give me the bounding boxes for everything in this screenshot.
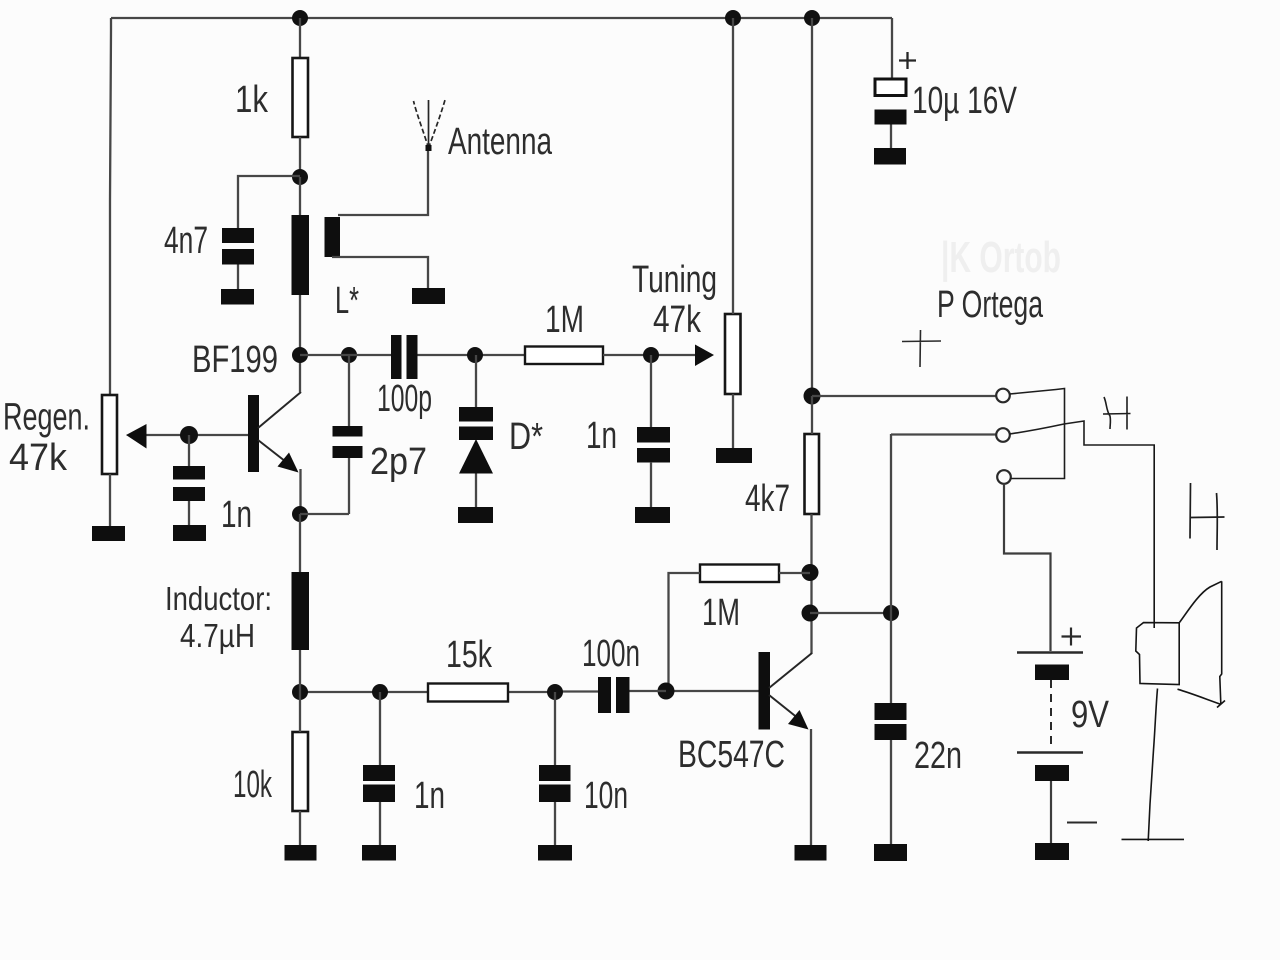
wire 1n low pass to ground — [379, 802, 381, 845]
wire 1M left lead down to base node — [669, 573, 701, 691]
wire 4k7 bottom to collector — [810, 514, 812, 654]
node junction base / 1n — [180, 426, 198, 444]
wire right rail corner down to 10u cap — [891, 18, 893, 79]
battery BT1 9V — [1017, 628, 1097, 844]
wire BF199 collector up — [299, 355, 301, 392]
resistor R3 1M — [525, 347, 603, 365]
resistor R6 1M feedback — [700, 565, 779, 583]
svg-text:P Ortega: P Ortega — [937, 284, 1044, 326]
wire 4k7 rail down — [811, 18, 813, 396]
wire 1n to ground — [188, 501, 190, 525]
resistor R5 4k7 — [805, 434, 820, 514]
svg-text:22n: 22n — [914, 735, 962, 777]
wire 100n right lead — [630, 690, 667, 692]
svg-text:|K Ortob: |K Ortob — [941, 233, 1061, 283]
svg-text:1n: 1n — [414, 775, 445, 817]
svg-text:10µ 16V: 10µ 16V — [912, 80, 1017, 122]
wire 4.7uH bottom lead — [299, 650, 301, 692]
node junction 4k7 rail — [804, 10, 820, 26]
svg-text:1n: 1n — [221, 494, 252, 536]
capacitor C7 100n — [598, 677, 630, 713]
ground Regen pot — [92, 526, 125, 541]
svg-text:1n: 1n — [586, 415, 617, 457]
hand-drawn H mark lower — [1190, 483, 1225, 550]
wire collector node to 100p — [300, 354, 391, 356]
svg-text:1k: 1k — [235, 79, 269, 121]
svg-text:4.7µH: 4.7µH — [180, 617, 255, 654]
wire 2p7 bottom lead — [348, 458, 350, 514]
inductor L2 4.7uH — [292, 572, 310, 650]
svg-text:10k: 10k — [233, 764, 273, 806]
svg-text:2p7: 2p7 — [370, 441, 427, 483]
transistor Q1 BF199 — [192, 339, 301, 473]
svg-text:15k: 15k — [446, 634, 493, 676]
transistor Q2 BC547C — [678, 652, 812, 776]
svg-text:BC547C: BC547C — [678, 734, 785, 776]
speaker LS1 — [1122, 445, 1226, 841]
ground diode — [458, 507, 493, 523]
node junction base divider — [292, 169, 308, 185]
capacitor C2 1n base — [173, 466, 205, 501]
svg-text:10n: 10n — [584, 775, 628, 817]
wire BC547 base — [666, 690, 759, 692]
wire 1n low pass top lead — [379, 692, 381, 765]
wire 10n top lead — [554, 692, 556, 765]
node 22n junction — [883, 605, 899, 621]
wire node to connector pin 1 — [812, 395, 997, 397]
node inductor bottom — [292, 684, 308, 700]
node collector junction — [292, 347, 308, 363]
wire 1n tuning top lead — [650, 355, 652, 427]
node collector output junction — [802, 605, 819, 622]
wire 1k top lead — [299, 18, 301, 58]
diode D1 varicap — [459, 355, 493, 507]
ground antenna coil — [412, 288, 445, 304]
wire output node to connector pin 2 — [891, 433, 997, 435]
resistor R8 15k — [428, 684, 508, 702]
wire top supply rail — [111, 17, 892, 19]
wire 4n7 to ground — [237, 265, 239, 290]
wire tuning pot to ground — [732, 394, 734, 448]
svg-text:BF199: BF199 — [192, 339, 278, 381]
wire 22n to ground — [890, 740, 892, 844]
capacitor 4n7 — [222, 228, 254, 265]
wire 1M to tuning node — [603, 354, 696, 356]
wire Regen pot to ground — [109, 474, 111, 526]
resistor R7 10k — [293, 732, 309, 811]
wire coupling top to antenna — [338, 148, 428, 215]
wire L1 top lead — [299, 177, 301, 215]
wire 1n base cap lead — [188, 435, 190, 466]
node emitter junction — [292, 506, 308, 522]
hand-drawn H mark upper — [1103, 397, 1131, 430]
svg-text:Regen.: Regen. — [3, 397, 90, 439]
inductor L1 main winding — [292, 215, 310, 295]
svg-text:100p: 100p — [377, 378, 432, 420]
wire tuning pot top from rail — [732, 18, 734, 314]
inductor L1 antenna coupling winding — [325, 217, 341, 257]
node diode junction — [467, 347, 483, 363]
wire 10k to ground — [299, 811, 301, 845]
wire pin 2 to speaker — [1010, 421, 1156, 445]
capacitor C8 1n low pass — [363, 765, 395, 802]
node base junction — [658, 683, 675, 700]
wire 100p to diode node — [418, 354, 526, 356]
node junction tuning rail — [725, 10, 741, 26]
hand-drawn plus mark — [902, 330, 941, 367]
node 1n bottom junction — [372, 684, 388, 700]
svg-text:Inductor:: Inductor: — [165, 580, 272, 617]
ground 10u cap — [874, 148, 906, 165]
svg-text:47k: 47k — [653, 299, 702, 341]
svg-text:1M: 1M — [545, 299, 584, 341]
svg-text:Tuning: Tuning — [632, 259, 717, 301]
antenna symbol — [414, 100, 446, 148]
capacitor C4 2p7 — [333, 426, 363, 458]
wire collector node to 22n branch — [810, 612, 891, 614]
resistor 1k — [293, 58, 309, 137]
capacitor C3 100p — [391, 335, 418, 379]
wire L1 bottom lead — [299, 295, 301, 355]
wire 10n to ground — [554, 802, 556, 845]
svg-text:Antenna: Antenna — [448, 121, 553, 163]
ground 10k — [285, 845, 317, 861]
wire 2p7 top lead — [348, 355, 350, 426]
wire 1k bottom lead — [299, 137, 301, 177]
svg-text:4n7: 4n7 — [164, 220, 208, 262]
wire 1n tuning to ground — [650, 462, 652, 507]
ground 22n — [874, 844, 907, 861]
wire connector bracket pin1 to pin3 — [1010, 389, 1065, 479]
wire left rail down to Regen pot — [110, 18, 111, 395]
connector pin 3 — [997, 470, 1011, 484]
node junction output to connector — [804, 388, 821, 405]
capacitor C6 10u 16V electrolytic — [875, 52, 917, 148]
svg-text:100n: 100n — [582, 633, 640, 675]
wire BF199 emitter down — [299, 469, 301, 514]
ground 4n7 — [221, 289, 254, 305]
wire BC547 emitter down — [810, 729, 812, 845]
potentiometer wiper arrow Regen — [126, 424, 147, 449]
svg-text:9V: 9V — [1071, 694, 1110, 736]
wire 4k7 top lead — [811, 396, 813, 434]
wire pin 3 to battery — [1004, 484, 1051, 652]
svg-text:D*: D* — [509, 416, 543, 458]
node 1M feedback junction — [802, 564, 819, 581]
svg-text:47k: 47k — [9, 437, 68, 479]
capacitor C5 1n tuning — [637, 427, 670, 463]
potentiometer R4 Tuning 47k — [725, 314, 741, 394]
node junction at 1k top — [292, 10, 308, 26]
capacitor C10 22n — [875, 703, 907, 740]
wire 4.7uH top lead — [299, 514, 301, 572]
ground 1n low pass — [362, 845, 396, 861]
connector pin 1 — [996, 389, 1010, 403]
wire emitter node to 2p7 — [300, 513, 349, 515]
wire 100n left lead — [555, 690, 598, 692]
wire 1M right lead — [779, 572, 810, 574]
capacitor C9 10n — [539, 765, 571, 802]
svg-text:4k7: 4k7 — [745, 478, 790, 520]
ground BC547 emitter — [795, 845, 827, 861]
svg-text:L*: L* — [335, 280, 359, 322]
node 10n junction — [547, 684, 563, 700]
wire coupling bottom to ground — [332, 257, 428, 288]
wire to 4n7 — [238, 176, 300, 228]
potentiometer wiper arrow Tuning — [695, 345, 714, 367]
potentiometer R2 Regen 47k — [102, 395, 117, 474]
ground tuning pot — [716, 448, 752, 463]
ground 1n tuning — [635, 507, 670, 523]
connector pin 2 — [996, 428, 1010, 442]
ground battery — [1035, 843, 1069, 860]
wire emitter node row — [300, 691, 555, 693]
wire BF199 base — [146, 434, 248, 436]
wire 22n top from output node — [890, 434, 892, 703]
ground 10n — [538, 845, 572, 861]
node tuning junction — [643, 347, 659, 363]
ground 1n base — [173, 525, 206, 541]
svg-text:1M: 1M — [702, 592, 740, 634]
wire 10k top lead — [299, 692, 301, 732]
node 2p7 junction — [341, 347, 357, 363]
